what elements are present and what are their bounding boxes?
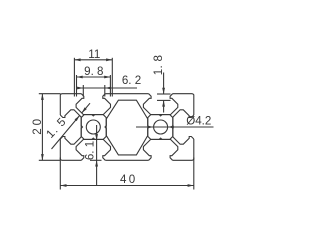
bottom slot cavity (left cell): [76, 138, 110, 160]
right end slot cavity: [172, 110, 194, 144]
top slot cavity (right cell): [143, 94, 177, 116]
dimension 1.5 (web thickness): [44, 103, 90, 149]
dimension 1.8 (lip depth): [152, 55, 171, 113]
dimension 11 (slot inner width): [74, 48, 112, 96]
profile outer boundary: [60, 94, 194, 161]
dimension 20 (profile height): [31, 94, 60, 161]
svg-text:40: 40: [120, 173, 138, 186]
svg-text:9. 8: 9. 8: [84, 65, 103, 78]
svg-text:Ø4.2: Ø4.2: [186, 114, 211, 127]
dimension diameter 4.2 (bore): [136, 114, 214, 128]
right bore circle: [154, 120, 168, 134]
svg-text:6. 2: 6. 2: [122, 74, 141, 87]
svg-text:20: 20: [31, 116, 44, 135]
left core outline: [81, 115, 106, 140]
svg-text:1. 8: 1. 8: [152, 55, 165, 76]
left end slot cavity: [60, 110, 82, 144]
dimension 9.8: [77, 65, 111, 97]
right core outline: [148, 115, 173, 140]
dimension 40 (profile width): [60, 158, 194, 190]
top slot cavity (left cell): [76, 94, 110, 116]
bottom slot cavity (right cell): [143, 138, 177, 160]
left bore circle: [86, 120, 100, 134]
svg-text:11: 11: [88, 48, 100, 61]
dimension 6.1: [84, 125, 102, 186]
dimension 6.2 (slot opening): [77, 74, 141, 97]
central chamber outline: [105, 100, 149, 155]
svg-text:6. 1: 6. 1: [84, 141, 97, 160]
